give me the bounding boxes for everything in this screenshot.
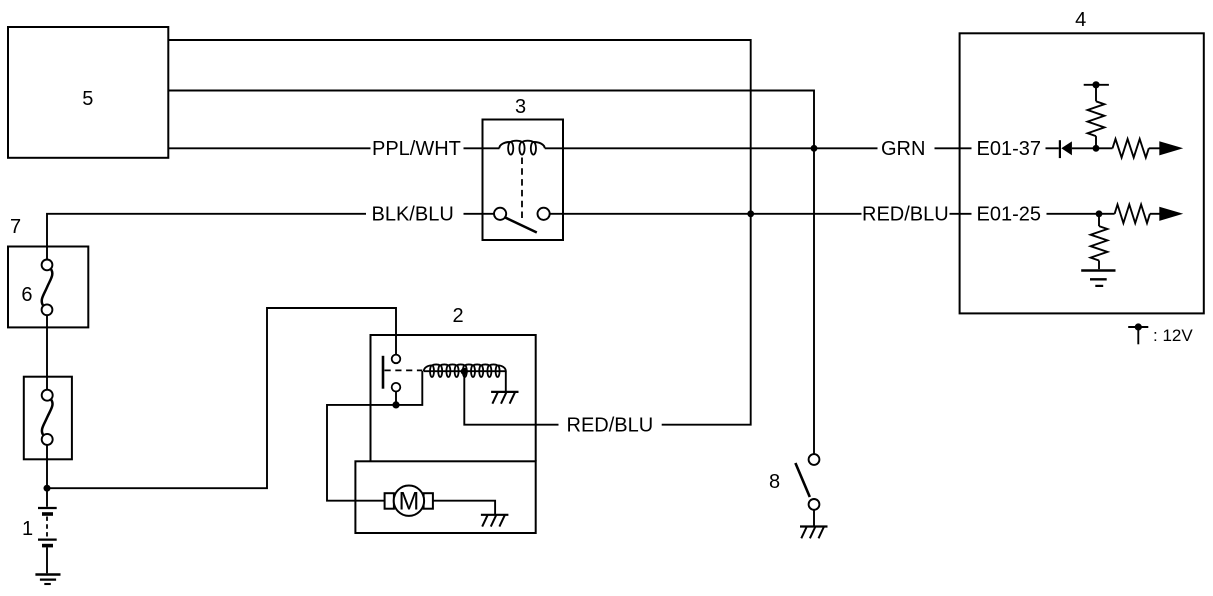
relay 2 contact terminal bottom (392, 383, 401, 392)
wire junction to coil left end (396, 371, 422, 405)
switch 8 terminal top (809, 454, 820, 465)
wire battery junction to box 2 (47, 308, 396, 488)
fuse box 6 (8, 247, 88, 328)
wire box5 pin2 run to switch-8 riser (168, 91, 814, 455)
common junction node (392, 401, 399, 408)
pull-down resistor R4 (1091, 214, 1108, 269)
relay 2 coil axis wire (424, 370, 506, 372)
wire switch bottom to common junction (395, 392, 397, 405)
fuse 6 symbol (42, 260, 53, 316)
svg-text:RED/BLU: RED/BLU (862, 204, 949, 226)
switch 8 arm (795, 463, 809, 497)
svg-text:RED/BLU: RED/BLU (567, 415, 654, 437)
svg-text:1: 1 (22, 518, 33, 540)
wire box5 pin3 PPL/WHT (168, 147, 371, 149)
relay 2 contact terminal top (392, 355, 401, 364)
relay 3 coil (499, 141, 544, 149)
svg-text:3: 3 (515, 96, 526, 118)
battery junction node (44, 485, 51, 492)
junction E01-37 node (1093, 145, 1100, 152)
wire relay3 contact to RED/BLU label (550, 213, 862, 215)
svg-text:: 12V: : 12V (1153, 326, 1193, 345)
chassis ground (switch 8) (800, 527, 828, 539)
relay 2 coil loops (430, 365, 500, 377)
connector box 4 (960, 33, 1204, 313)
wire RED/BLU to E01-25 (950, 213, 972, 215)
arrow A1 (1159, 141, 1183, 155)
arrow A2 (1159, 207, 1183, 221)
relay 2 dashed armature link (385, 369, 423, 371)
relay 3 switch arm (505, 218, 536, 233)
svg-text:6: 6 (21, 284, 32, 306)
series resistor R2 (1099, 139, 1160, 158)
wire PPL/WHT to relay box 3 (464, 147, 500, 149)
svg-text:8: 8 (769, 471, 780, 493)
wire GRN to E01-37 (935, 147, 972, 149)
relay 2 coil (424, 364, 506, 371)
relay box 3 (483, 120, 564, 241)
svg-text:PPL/WHT: PPL/WHT (372, 138, 461, 160)
wire junction to motor (327, 405, 396, 501)
wire lower fuse to battery junction (46, 445, 48, 507)
junction E01-25 node (1096, 210, 1103, 217)
relay 2 contact bar (382, 356, 385, 389)
battery 1 (38, 508, 57, 573)
svg-text:E01-37: E01-37 (977, 138, 1042, 160)
legend 12V symbol (1128, 323, 1148, 344)
wire E01-25 to junction (1047, 213, 1100, 215)
relay 3 contact terminal left (494, 208, 506, 220)
svg-text:M: M (398, 487, 419, 515)
wire box5 pin1 top run to RED/BLU riser (168, 40, 751, 425)
relay box 2 (371, 335, 536, 461)
wire coil right end to ground (505, 371, 507, 392)
chassis ground (motor) (481, 515, 509, 527)
svg-text:2: 2 (452, 305, 463, 327)
motor box (355, 461, 535, 533)
diode (cathode left) (1060, 140, 1072, 158)
12V supply symbol (1084, 81, 1109, 88)
wire relay3 coil to box 4 (GRN net) (545, 147, 878, 149)
junction RED/BLU riser (747, 210, 754, 217)
wire switch 8 to ground (813, 510, 815, 527)
wire fuse6 to lower fuse (46, 315, 48, 389)
relay 3 armature dashed link (521, 158, 523, 220)
junction GRN / switch-8 riser (811, 145, 818, 152)
module box 5 (8, 27, 168, 158)
svg-text:4: 4 (1075, 9, 1086, 31)
chassis ground (relay 2 coil) (491, 392, 518, 404)
relay 3 coil loops (508, 142, 536, 155)
earth ground (battery) (35, 575, 60, 585)
svg-text:E01-25: E01-25 (977, 204, 1042, 226)
svg-text:GRN: GRN (881, 138, 925, 160)
wire fuse column to BLK/BLU label (47, 214, 366, 260)
wire coil tap to RED/BLU label (464, 371, 558, 424)
earth ground (box 4) (1081, 271, 1115, 286)
switch 8 terminal bottom (809, 499, 820, 510)
pull-up resistor R1 (1088, 85, 1105, 149)
svg-text:7: 7 (10, 216, 21, 238)
motor M1 (385, 486, 433, 516)
series resistor R3 (1099, 205, 1160, 224)
svg-text:BLK/BLU: BLK/BLU (372, 204, 454, 226)
lower fuse box (24, 377, 72, 460)
wire E01-37 to diode (1046, 147, 1059, 149)
wire motor to ground (433, 501, 495, 515)
wire BLK/BLU to relay box 3 (464, 213, 495, 215)
lower fuse symbol (42, 390, 53, 445)
svg-text:5: 5 (82, 88, 93, 110)
relay 3 contact terminal right (538, 208, 550, 220)
wire diode to junction (1072, 147, 1096, 149)
coil tap junction node (461, 368, 468, 375)
